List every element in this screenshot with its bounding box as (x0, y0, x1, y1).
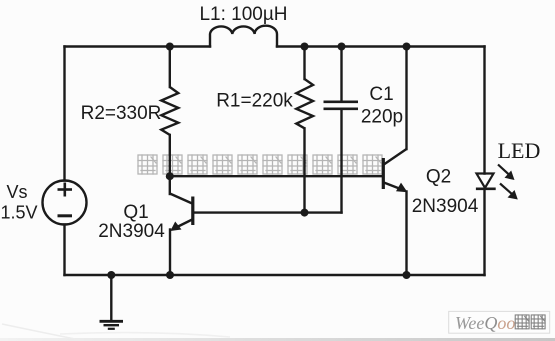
node R1 top (301, 43, 309, 51)
wire left rail upper (63, 47, 65, 181)
ground symbol (100, 321, 124, 329)
wire node R2-Q2base horizontal (170, 175, 383, 177)
wire Q2 emitter lead (405, 192, 407, 276)
wire Q1 base (193, 211, 342, 213)
svg-text:2N3904: 2N3904 (98, 221, 165, 242)
ground stem (110, 275, 112, 320)
wire right rail lower (483, 189, 485, 275)
LED D1 (476, 174, 496, 189)
wire Q2 collector lead (405, 47, 407, 150)
svg-text:Q1: Q1 (123, 202, 148, 223)
watermark text 杭州将睿科技有限公司 (center) (138, 155, 382, 174)
wire R1 bottom lead (303, 128, 305, 212)
wire R1 top lead (303, 47, 305, 80)
node R1 bottom / Q1 base (301, 209, 309, 217)
resistor R1 (296, 79, 313, 128)
svg-text:L1: 100µH: L1: 100µH (199, 4, 287, 25)
inductor L1 (210, 26, 277, 48)
LED light arrow 2 (500, 184, 518, 200)
svg-text:R2=330R: R2=330R (81, 103, 162, 124)
svg-text:LED: LED (498, 138, 541, 163)
node Q2 emitter bottom (403, 271, 411, 279)
wire right rail upper (483, 47, 485, 174)
wire C1 bottom lead (340, 110, 342, 213)
Q2 emitter arrowhead (396, 183, 408, 193)
LED light arrow 1 (498, 165, 515, 181)
Vs plus sign (58, 183, 73, 197)
voltage source Vs (43, 181, 87, 225)
wire bottom rail (65, 274, 485, 276)
Q1 emitter arrowhead (170, 222, 181, 232)
wire top rail right segment (277, 45, 485, 47)
svg-text:WeeQoo: WeeQoo (455, 313, 515, 333)
wire R2 top lead (169, 47, 171, 88)
svg-text:2N3904: 2N3904 (412, 196, 479, 217)
Vs minus sign (58, 214, 73, 217)
node R2 bottom / Q1 collector / Q2 base (166, 172, 174, 180)
svg-text:R1=220k: R1=220k (216, 91, 293, 112)
faint corner arc bottom-left (2, 324, 80, 340)
node R2 top (166, 43, 174, 51)
svg-text:Vs: Vs (6, 182, 27, 202)
capacitor C1 (324, 102, 359, 109)
wire Q1 emitter lead (169, 230, 171, 276)
node C1 top (338, 43, 346, 51)
node Q2 collector top (403, 43, 411, 51)
wire R2 bottom lead (169, 135, 171, 176)
wire Q1 collector lead (169, 176, 171, 194)
wire C1 top lead (340, 47, 342, 102)
wire left rail lower (63, 225, 65, 276)
node ground (107, 271, 115, 279)
WeeQoo watermark box (449, 311, 550, 333)
svg-text:220p: 220p (361, 107, 403, 128)
node Q1 emitter bottom (166, 271, 174, 279)
wire top rail left segment (65, 45, 211, 47)
svg-text:C1: C1 (369, 84, 393, 105)
resistor R2 (161, 87, 178, 135)
transistor Q1 (mirrored, faces left) (170, 194, 193, 230)
svg-text:Q2: Q2 (426, 167, 451, 188)
transistor Q2 (faces right) (383, 149, 406, 191)
svg-text:1.5V: 1.5V (0, 203, 37, 223)
